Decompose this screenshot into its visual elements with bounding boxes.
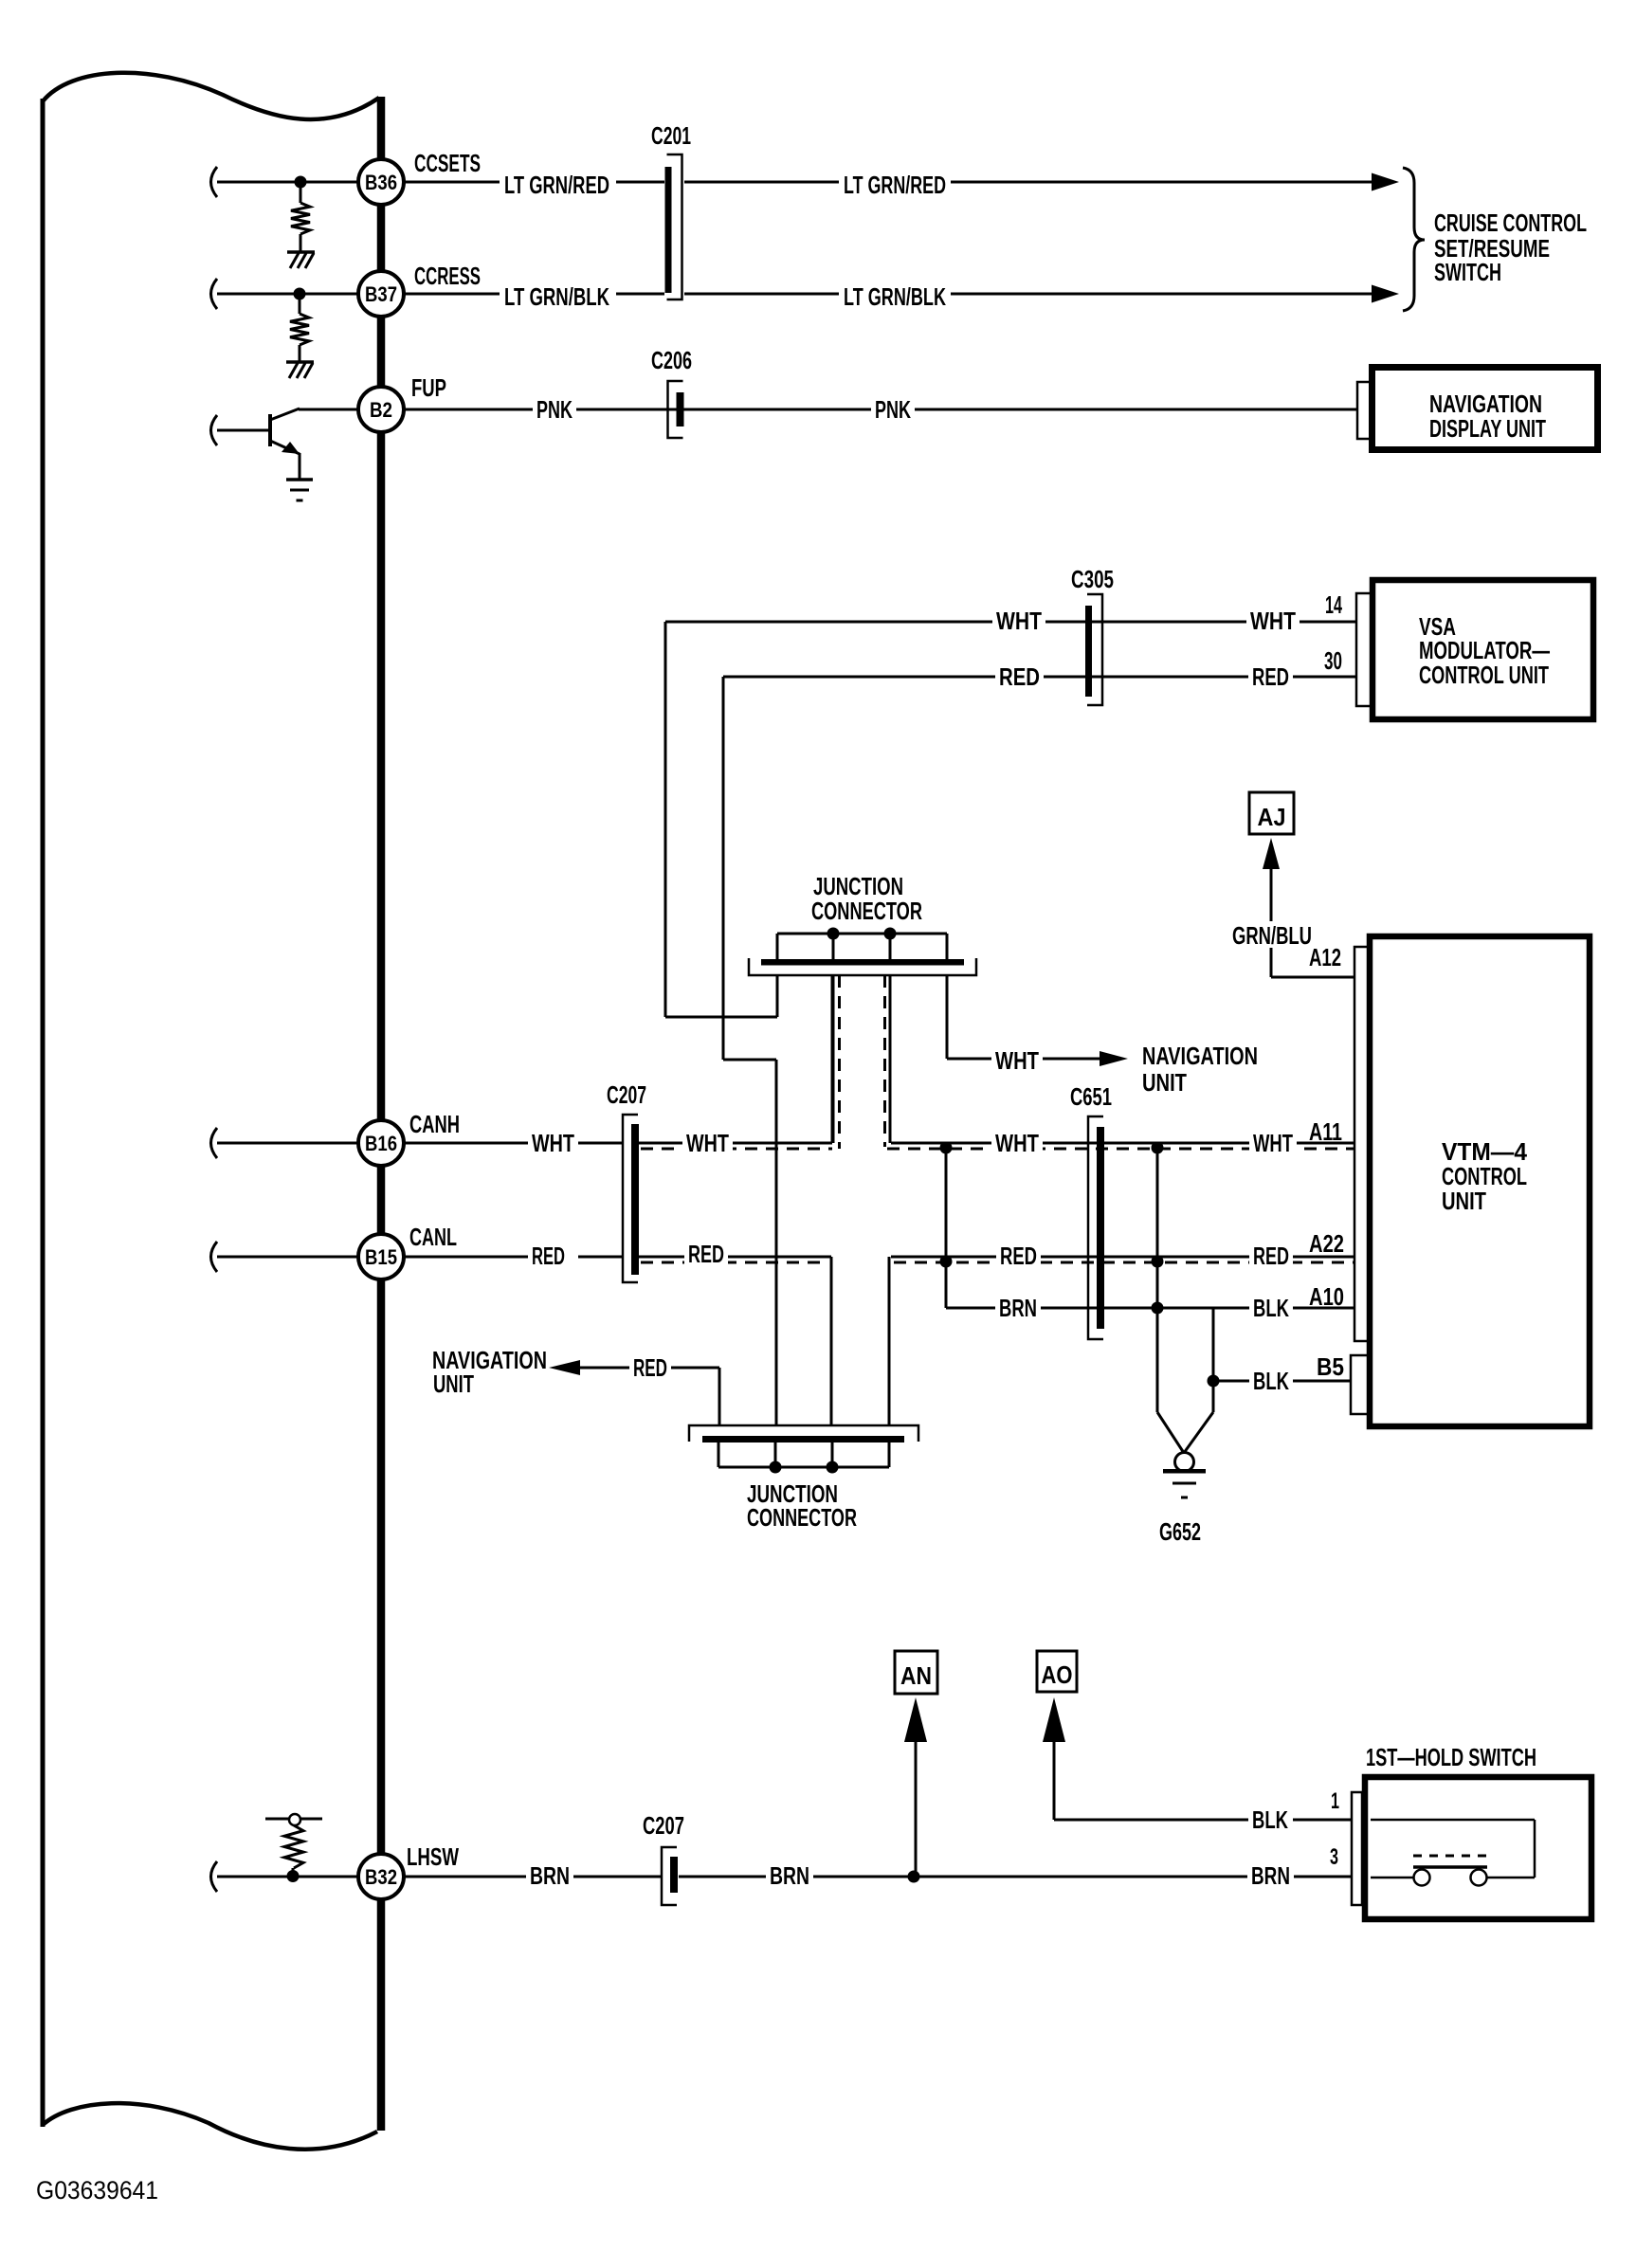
svg-text:BLK: BLK — [1253, 1367, 1289, 1395]
svg-text:1: 1 — [1331, 1788, 1339, 1814]
svg-text:CCRESS: CCRESS — [414, 262, 481, 290]
svg-text:UNIT: UNIT — [1142, 1068, 1187, 1097]
svg-text:UNIT: UNIT — [1442, 1187, 1486, 1215]
svg-text:LT GRN/BLK: LT GRN/BLK — [504, 282, 609, 311]
svg-text:AO: AO — [1042, 1660, 1073, 1689]
svg-text:C651: C651 — [1070, 1082, 1112, 1111]
svg-text:DISPLAY UNIT: DISPLAY UNIT — [1429, 414, 1546, 443]
svg-text:BLK: BLK — [1253, 1294, 1289, 1322]
svg-text:WHT: WHT — [1253, 1129, 1293, 1157]
svg-text:CANL: CANL — [409, 1223, 457, 1251]
svg-text:UNIT: UNIT — [433, 1370, 474, 1398]
svg-text:B16: B16 — [365, 1132, 397, 1155]
svg-text:A11: A11 — [1309, 1117, 1342, 1146]
svg-text:CONTROL UNIT: CONTROL UNIT — [1419, 661, 1549, 689]
svg-text:RED: RED — [688, 1240, 724, 1268]
svg-text:NAVIGATION: NAVIGATION — [1142, 1042, 1258, 1070]
svg-text:BRN: BRN — [530, 1861, 570, 1890]
svg-text:B5: B5 — [1317, 1352, 1344, 1381]
svg-text:C206: C206 — [651, 346, 692, 374]
svg-text:CONNECTOR: CONNECTOR — [811, 897, 922, 925]
svg-text:WHT: WHT — [1250, 607, 1296, 635]
svg-text:C207: C207 — [643, 1811, 684, 1840]
svg-text:B2: B2 — [370, 398, 392, 422]
svg-text:SWITCH: SWITCH — [1434, 258, 1501, 286]
svg-text:LT GRN/BLK: LT GRN/BLK — [844, 282, 946, 311]
svg-text:FUP: FUP — [411, 373, 446, 402]
svg-text:1ST—HOLD SWITCH: 1ST—HOLD SWITCH — [1366, 1743, 1536, 1771]
svg-text:BRN: BRN — [1251, 1861, 1290, 1890]
svg-text:CANH: CANH — [409, 1110, 460, 1138]
svg-text:B37: B37 — [365, 282, 397, 306]
svg-text:A12: A12 — [1309, 943, 1341, 971]
svg-text:C207: C207 — [607, 1080, 646, 1109]
svg-text:G03639641: G03639641 — [36, 2176, 158, 2204]
svg-text:BRN: BRN — [999, 1294, 1037, 1322]
svg-text:3: 3 — [1330, 1844, 1338, 1870]
svg-text:RED: RED — [633, 1353, 667, 1382]
svg-text:AJ: AJ — [1258, 803, 1286, 831]
svg-text:C201: C201 — [651, 121, 691, 150]
svg-text:B15: B15 — [365, 1245, 397, 1269]
svg-text:BLK: BLK — [1252, 1805, 1288, 1834]
svg-text:PNK: PNK — [875, 395, 911, 424]
svg-text:PNK: PNK — [536, 395, 573, 424]
svg-text:BRN: BRN — [770, 1861, 809, 1890]
svg-text:CRUISE CONTROL: CRUISE CONTROL — [1434, 209, 1587, 237]
svg-text:A10: A10 — [1309, 1282, 1344, 1311]
svg-text:G652: G652 — [1159, 1517, 1201, 1546]
svg-text:RED: RED — [1253, 1242, 1289, 1270]
svg-text:LHSW: LHSW — [407, 1842, 459, 1871]
svg-text:RED: RED — [1252, 662, 1289, 691]
svg-text:A22: A22 — [1309, 1229, 1344, 1258]
svg-text:WHT: WHT — [996, 607, 1042, 635]
svg-text:WHT: WHT — [532, 1129, 574, 1157]
svg-text:LT GRN/RED: LT GRN/RED — [504, 171, 609, 199]
svg-text:WHT: WHT — [995, 1046, 1039, 1075]
svg-text:14: 14 — [1325, 590, 1342, 619]
svg-text:RED: RED — [999, 662, 1040, 691]
svg-text:WHT: WHT — [686, 1129, 729, 1157]
svg-text:CONNECTOR: CONNECTOR — [747, 1503, 857, 1532]
svg-text:C305: C305 — [1071, 565, 1114, 593]
svg-text:B32: B32 — [365, 1865, 397, 1889]
svg-text:CCSETS: CCSETS — [414, 149, 481, 177]
svg-text:WHT: WHT — [995, 1129, 1039, 1157]
svg-text:RED: RED — [1000, 1242, 1037, 1270]
svg-text:GRN/BLU: GRN/BLU — [1232, 921, 1312, 950]
svg-text:RED: RED — [532, 1242, 565, 1270]
svg-text:AN: AN — [900, 1661, 932, 1690]
svg-text:LT GRN/RED: LT GRN/RED — [844, 171, 946, 199]
svg-text:B36: B36 — [365, 171, 397, 194]
svg-text:30: 30 — [1324, 646, 1342, 675]
